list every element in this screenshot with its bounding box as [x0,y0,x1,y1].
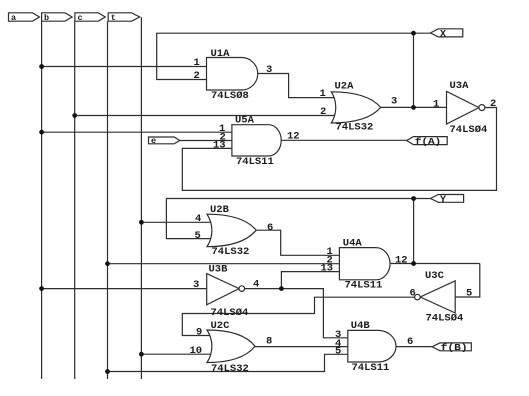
and-gate U4B [335,320,413,374]
svg-text:U3B: U3B [209,263,229,275]
svg-text:b: b [44,13,49,23]
svg-text:a: a [11,13,16,23]
wire U1A output to U2A pin1 [258,74,336,98]
inverter U3A [433,80,496,136]
wire X feedback top to U1A pin2 [157,33,414,79]
wire Y vertical from U4A output [413,199,415,264]
wire U3B output to U4B pin3 [245,289,348,338]
svg-text:3: 3 [391,95,397,107]
svg-text:13: 13 [213,140,226,152]
svg-text:74LS11: 74LS11 [352,362,390,374]
svg-text:U4A: U4A [343,237,363,249]
svg-text:6: 6 [407,336,413,348]
and-gate U5A [213,115,300,168]
wire U2B output to U4A pin1 [256,230,339,255]
svg-text:74LS11: 74LS11 [345,280,383,292]
svg-text:3: 3 [193,279,199,291]
or-gate U2A [320,81,398,134]
output flag f(A) [407,137,448,147]
wire U4A pin2 from c [108,263,339,265]
svg-text:U1A: U1A [211,48,231,60]
node X at U2A output [411,105,416,110]
or-gate U2B [195,204,274,258]
node junction t to U2C pin10 [139,352,144,357]
node junction c to U4A pin2 [105,261,110,266]
node X [411,31,416,36]
input flag a [9,13,40,23]
svg-text:74LS32: 74LS32 [336,121,374,133]
svg-text:13: 13 [321,262,334,274]
node Y at U4A output [411,261,416,266]
node junction c to U4B pin5 [105,369,110,374]
svg-text:74LS32: 74LS32 [211,363,249,375]
node junction t to U2B pin4 [139,220,144,225]
svg-text:6: 6 [267,222,273,234]
svg-text:6: 6 [410,287,416,299]
inverter U3C (left pointing) [410,270,473,325]
svg-text:U2A: U2A [335,81,355,93]
wire bus vertical t [140,17,142,379]
input flag b [42,13,73,23]
or-gate U2C [190,320,273,375]
wire U5A pin2 from e flag [180,140,232,142]
svg-text:U3C: U3C [425,270,445,282]
svg-text:U2C: U2C [211,320,231,332]
svg-text:74LSØ8: 74LSØ8 [211,90,249,102]
wire U5A output to f(A) [281,139,407,141]
output flag Y [431,195,464,207]
wire U3A output feedback loop to U5A pin13 [182,108,496,191]
wire U4A pin13 from U3B output [281,272,339,289]
wire U3B input from a [42,288,207,290]
and-gate U4A [321,237,408,291]
svg-text:2: 2 [194,70,200,82]
wire U4B output to f(B) [396,346,433,348]
svg-text:5: 5 [195,230,201,242]
input flag c [75,13,105,23]
svg-text:5: 5 [466,288,472,300]
svg-text:74LS11: 74LS11 [236,156,274,168]
svg-text:10: 10 [190,345,203,357]
inverter U3B [193,263,259,319]
svg-text:U3A: U3A [450,80,470,92]
input flag e [149,136,180,146]
input flag t [108,13,140,23]
svg-text:9: 9 [196,326,202,338]
wire U5A pin1 from a [42,131,232,133]
wire U4A output down to U3C input [455,264,480,298]
svg-text:74LSØ4: 74LSØ4 [450,124,488,136]
wire Y to U2B pin5 [166,199,413,239]
svg-text:f(B): f(B) [441,343,468,353]
svg-text:2: 2 [490,98,496,110]
svg-text:74LSØ4: 74LSØ4 [211,307,249,319]
svg-text:f(A): f(A) [415,137,442,147]
svg-text:2: 2 [320,106,326,118]
svg-text:12: 12 [287,131,300,143]
svg-text:Y: Y [440,195,446,206]
node Y [411,196,416,201]
svg-text:5: 5 [335,345,341,357]
wire U2A output to U3A input [381,106,447,108]
and-gate U1A [194,48,273,102]
wire U1A pin1 from a [42,66,207,68]
wire U4B pin5 from c [108,354,348,371]
wire X flag stub [414,32,432,34]
wire X vertical to U2A output [413,33,415,107]
output flag f(B) [432,343,471,353]
svg-text:1: 1 [320,88,326,100]
wire bus vertical b [74,21,76,379]
svg-text:8: 8 [266,336,272,348]
node junction a to U1A pin1 [39,64,44,69]
wire Y flag stub [414,198,431,200]
node U3B output junction [279,286,284,291]
node junction a to U5A pin1 [39,130,44,135]
svg-text:X: X [440,29,446,40]
svg-text:4: 4 [253,278,259,290]
svg-text:3: 3 [266,64,272,76]
svg-text:1: 1 [194,57,200,69]
svg-text:c: c [78,13,83,23]
svg-text:e: e [151,136,156,146]
svg-text:1: 1 [433,99,439,111]
svg-text:U4B: U4B [351,320,371,332]
svg-text:U5A: U5A [235,115,255,127]
wire U2C pin10 from t [141,353,213,355]
output flag X [431,29,463,41]
svg-text:t: t [111,13,116,23]
node junction b to U2A pin2 [72,113,77,118]
node junction a to U3B input [39,286,44,291]
wire U2A pin2 from b [75,115,337,117]
wire bus vertical a [41,21,43,379]
svg-text:74LS32: 74LS32 [212,246,250,258]
wire bus vertical c [107,21,109,379]
svg-text:4: 4 [195,213,201,225]
wire U3C output feedback to U2C pin9 [182,297,414,335]
wire U4A output node [390,263,480,265]
svg-text:U2B: U2B [210,204,230,216]
wire U2C output to U4B pin4 [255,346,348,348]
svg-text:74LSØ4: 74LSØ4 [426,312,464,324]
wire U2B pin4 from t [141,221,213,223]
svg-text:12: 12 [395,255,408,267]
